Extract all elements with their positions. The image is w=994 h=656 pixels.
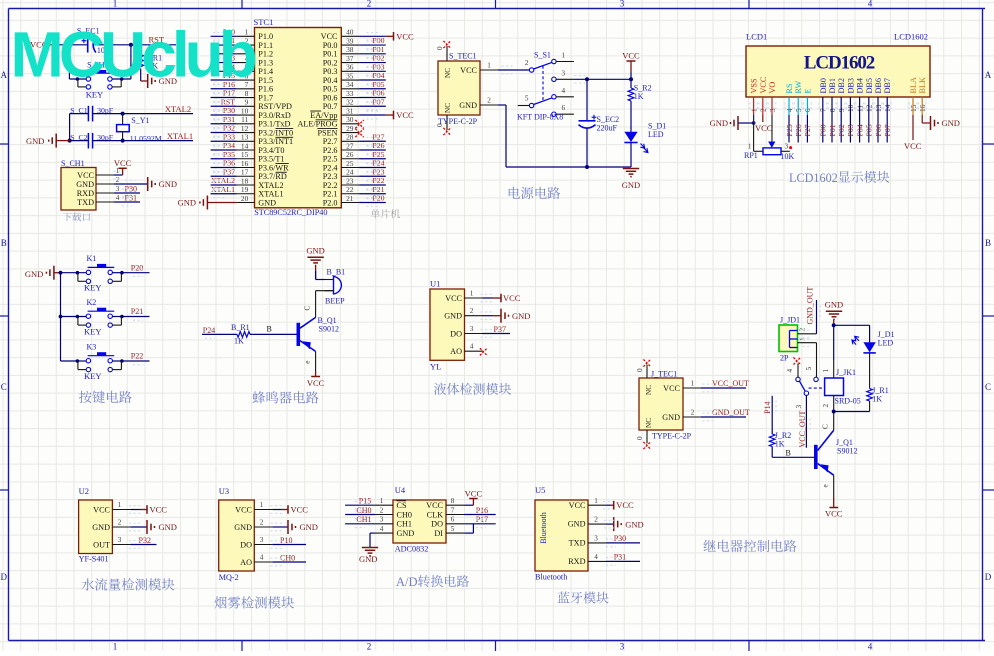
connector J_JD1 [779,325,798,363]
wire net XTAL2 [211,184,237,186]
pin 19 lead [237,185,255,194]
wire net RST [211,105,237,107]
svg-text:C: C [985,382,991,392]
svg-text:GND: GND [26,136,44,146]
wire key right up [130,45,132,79]
svg-text:6: 6 [451,516,455,524]
wire [701,416,746,418]
pin 13 lead [237,133,255,142]
node junction [120,77,124,81]
net label P23 [372,167,384,176]
pin 2 number [525,59,529,67]
wire [315,266,317,280]
svg-text:37: 37 [346,54,354,63]
svg-text:P3.5/T1: P3.5/T1 [258,155,284,164]
module U2 body [79,500,113,554]
net label P37 [481,325,506,338]
wire [114,201,140,203]
svg-text:7: 7 [451,506,455,514]
key K3 [76,343,124,382]
svg-text:B_R1: B_R1 [231,323,250,332]
wire net XTAL1 [211,193,237,195]
svg-text:1: 1 [748,142,752,150]
net label P22 [131,352,143,361]
power VCC port (pin 40) [386,31,414,41]
svg-text:LCD1602: LCD1602 [894,32,928,42]
pin 36 lead [341,63,359,72]
svg-text:VCC: VCC [93,505,110,514]
svg-text:VCC: VCC [445,294,462,303]
power VCC port (reset) [30,40,58,50]
svg-text:XTAL1: XTAL1 [167,131,193,141]
svg-text:1K: 1K [775,439,785,448]
svg-text:1: 1 [113,0,118,9]
wire VSS [753,97,755,123]
svg-text:1K: 1K [234,336,244,345]
pin 3 lead [465,325,483,334]
net label GND_OUT vertical [806,287,815,325]
pin 0 shield bottom [436,115,447,130]
pin 7 lead [446,506,464,514]
pin 5 stub [518,94,530,105]
svg-text:GND: GND [76,180,94,189]
svg-text:40: 40 [346,28,354,37]
svg-text:VCC: VCC [114,158,132,168]
pin 3 lead [112,536,130,545]
label 蜂鸣器电路 [252,391,318,403]
wire net P05 [359,88,386,90]
switch contact circle [814,377,818,381]
pin 2 lead [112,519,130,528]
wire [483,333,511,335]
svg-text:U5: U5 [535,485,545,495]
svg-text:P3.7/RD: P3.7/RD [258,172,287,181]
wire contact5 [805,343,817,378]
svg-text:VSS: VSS [750,78,759,93]
svg-text:A: A [985,70,992,80]
svg-text:25: 25 [346,159,354,168]
net label P15 [359,497,371,506]
svg-text:J_JK1: J_JK1 [836,368,856,377]
svg-text:AO: AO [240,558,252,567]
switch lever [800,381,806,391]
svg-text:P3.1/TxD: P3.1/TxD [258,120,290,129]
connector S_CH1 label [61,159,85,168]
pin 1 lead [375,497,393,505]
wire hook [112,79,121,87]
svg-text:3: 3 [116,185,120,193]
net label P34 [223,141,235,150]
svg-text:KFT DIP-8X8: KFT DIP-8X8 [517,113,563,122]
pin 22 lead [341,185,359,194]
wire relay pin1 [822,325,834,378]
svg-text:DO: DO [450,329,462,338]
svg-text:P2.4: P2.4 [323,163,338,172]
pin 3 [96,185,120,193]
LCD pin names [750,76,928,93]
svg-text:CH0: CH0 [397,510,412,519]
net label P17 [476,515,488,524]
module U3 part [219,573,239,582]
svg-text:GND: GND [942,118,960,128]
power VCC port (U3) [271,505,309,515]
no-connect [443,128,450,135]
no-connect [443,41,450,48]
wire net P25 [359,158,386,160]
ground (S_CH1) [148,177,177,191]
wire [606,523,614,525]
pin 6 lead [237,71,255,80]
resistor J_R2 [769,431,791,449]
wire net P34 [211,149,237,151]
capacitor S_EC1 label [77,27,100,36]
net label P14 [223,62,235,71]
wire VCC_OUT net [795,395,807,447]
svg-text:P24: P24 [372,159,384,168]
svg-text:P00: P00 [819,124,828,136]
svg-text:Bluetooth: Bluetooth [539,512,548,544]
pin 4 lead [588,553,606,561]
net label P25 [372,150,384,159]
net label P02 [372,54,384,63]
svg-text:4: 4 [470,343,474,351]
module U5 part [535,573,567,582]
svg-text:P0.3: P0.3 [323,67,338,76]
wire net P07 [359,105,386,107]
svg-text:B_B1: B_B1 [327,268,346,277]
svg-text:16: 16 [241,159,249,168]
pin 16 lead [237,159,255,168]
net label P14 vertical [763,401,772,413]
svg-text:2: 2 [691,409,695,417]
module U1 body [430,289,465,360]
svg-text:B: B [267,325,272,334]
svg-text:0: 0 [636,368,644,372]
svg-text:GND: GND [234,523,252,532]
module U2 part [79,555,109,564]
connector part number [438,117,478,126]
pin 1 lead [588,497,606,505]
net label P12 [223,45,235,54]
switch dashed link [809,387,825,389]
svg-text:VCC_OUT: VCC_OUT [712,379,749,388]
label A/D转换电路 [396,575,469,589]
resistor S_R1 [138,53,162,70]
svg-text:3: 3 [380,516,384,524]
svg-text:1: 1 [691,380,695,388]
svg-text:E: E [803,88,812,93]
svg-text:KEY: KEY [86,90,103,100]
svg-text:P25: P25 [372,150,384,159]
switch contact 4 [786,364,798,378]
pin 27 lead [341,141,359,150]
svg-text:17: 17 [241,168,249,177]
power VCC port (power circuit) [622,51,640,72]
net label P24 [203,326,215,335]
wire [316,290,334,292]
svg-text:P25: P25 [785,124,794,136]
wire [272,544,306,546]
module U5 body [535,500,588,571]
pin 2 lead [375,506,393,514]
svg-text:U3: U3 [219,486,229,496]
net label GND_OUT [712,408,750,417]
svg-text:P22: P22 [131,352,143,361]
svg-text:GND: GND [568,520,586,529]
net label VCC_OUT vertical [798,410,807,447]
pin 40 lead [341,28,359,37]
svg-text:1: 1 [487,62,491,70]
logo MCUclub [11,19,256,91]
svg-text:P10: P10 [280,536,292,545]
label 单片机 [371,209,400,218]
svg-text:DB2: DB2 [837,78,846,93]
net label P36 [223,159,235,168]
pin 29 lead [341,124,359,133]
pin 28 lead [341,133,359,142]
svg-text:P2.1: P2.1 [323,190,338,199]
wire [345,523,375,525]
node junction [67,43,71,47]
net label P06 [372,89,384,98]
svg-text:ADC0832: ADC0832 [395,545,429,554]
svg-text:39: 39 [346,36,354,45]
LCD designator [746,32,928,42]
switch S_S1 contacts [529,59,556,116]
svg-text:P06: P06 [874,124,883,136]
svg-text:MCUclub: MCUclub [11,19,256,91]
svg-text:VCC: VCC [755,123,773,133]
svg-text:P2.5: P2.5 [323,155,338,164]
svg-text:GND: GND [92,523,110,532]
svg-text:1: 1 [118,501,122,509]
svg-text:P21: P21 [131,307,143,316]
svg-text:P1.0: P1.0 [258,32,273,41]
svg-text:EA/Vpp: EA/Vpp [310,111,337,120]
pin 4 lead [237,54,255,63]
wire [606,560,640,562]
pin 5 lead [446,525,464,533]
svg-text:P22: P22 [372,176,384,185]
svg-text:P07: P07 [883,124,892,136]
svg-text:14: 14 [241,141,249,150]
pin 2 lead [480,97,498,106]
svg-text:GND: GND [625,519,643,529]
ground (U3) [271,520,318,534]
svg-text:TXD: TXD [77,198,94,207]
svg-text:GND: GND [258,198,276,207]
svg-text:P0.5: P0.5 [323,85,338,94]
wire [869,353,871,389]
svg-text:VCC: VCC [503,293,521,303]
wire net P24 [359,167,386,169]
net label P33 [223,132,235,141]
svg-text:P0.0: P0.0 [323,41,338,50]
svg-text:P02: P02 [372,54,384,63]
svg-text:P3.2/INT0: P3.2/INT0 [258,128,293,137]
svg-text:P35: P35 [223,150,235,159]
svg-text:34: 34 [346,80,354,89]
wire rail [69,114,71,141]
wire [574,78,631,80]
pin 1 stub [556,52,574,62]
svg-text:NC: NC [644,385,653,395]
key S_K1 [86,60,119,99]
LCD1602 body [746,46,930,97]
label 烟雾检测模块 [214,596,294,608]
wire net P37 [211,175,237,177]
label 蓝牙模块 [558,592,609,604]
wire net P02 [359,62,386,64]
pin 1 [96,167,120,175]
wire XTAL2 [93,113,193,115]
pin 17 lead [237,168,255,177]
svg-text:P02: P02 [837,124,846,136]
wire [630,101,632,132]
svg-text:P27: P27 [372,132,384,141]
net label P21 [372,185,384,194]
svg-text:P3.0/RxD: P3.0/RxD [258,111,291,120]
svg-text:P34: P34 [223,141,235,150]
wire net P33 [211,140,237,142]
wire net P31 [211,123,237,125]
wire [630,72,632,88]
pin 7 lead [237,80,255,89]
svg-text:12: 12 [241,124,249,133]
pin 12 lead [237,124,255,133]
svg-text:P3.6/WR: P3.6/WR [258,163,289,172]
svg-text:P1.3: P1.3 [258,58,273,67]
svg-text:LCD1: LCD1 [746,32,767,42]
power VCC port (U2) [129,505,167,515]
svg-text:GND: GND [397,529,415,538]
svg-text:4: 4 [594,553,598,561]
pin 10 lead [237,106,255,115]
pin 38 lead [341,45,359,54]
svg-text:P23: P23 [372,167,384,176]
net label P17 [223,89,235,98]
pin 3 lead [588,535,606,543]
svg-text:LCD1602: LCD1602 [804,53,875,74]
svg-text:3: 3 [470,325,474,333]
svg-text:11.0592M: 11.0592M [130,134,162,143]
svg-text:RXD: RXD [568,557,585,566]
svg-text:P36: P36 [223,159,235,168]
pin 31 lead [341,106,359,115]
svg-text:10K: 10K [781,152,795,161]
power VCC (LCD pin2) [755,123,773,133]
transistor J_Q1 [814,430,857,475]
svg-text:GND: GND [825,299,843,309]
svg-text:CH0: CH0 [280,553,295,562]
svg-text:26: 26 [346,150,354,159]
svg-text:38: 38 [346,45,354,54]
svg-text:P30: P30 [223,106,235,115]
pin 2 lead [237,36,255,45]
svg-text:5: 5 [525,94,529,102]
svg-text:GND: GND [159,522,177,532]
svg-text:2: 2 [118,519,122,527]
ground (U5) [604,517,644,531]
svg-text:GND: GND [512,311,530,321]
svg-text:2: 2 [380,506,384,514]
svg-text:24: 24 [346,168,354,177]
pin 3 stub [556,69,574,79]
transistor B_Q1 [297,316,339,351]
ground (reset) [148,74,177,88]
net label P31 [125,193,137,202]
label 继电器控制电路 [703,540,796,552]
svg-text:S_TEC1: S_TEC1 [449,52,477,61]
wire net P23 [359,175,386,177]
svg-text:VCC: VCC [616,500,634,510]
wire [701,387,746,389]
ground (power circuit) [622,169,640,191]
net label P16 [476,506,488,515]
svg-text:1: 1 [594,497,598,505]
pin 5 lead [237,63,255,72]
svg-text:KEY: KEY [84,283,101,293]
ground (buzzer) [306,246,324,266]
wire [464,514,496,516]
wire [122,272,150,274]
switch contact circle [796,377,800,381]
svg-text:VCC: VCC [904,141,922,151]
svg-text:CH1: CH1 [356,515,371,524]
svg-text:TYPE-C-2P: TYPE-C-2P [438,117,478,126]
node junction [129,43,133,47]
pin 0 shield bottom [636,430,647,444]
module U3 body [219,500,255,571]
svg-text:P1.1: P1.1 [258,41,273,50]
wire [58,44,87,46]
wire [771,396,773,434]
module U3 designator [219,486,229,496]
svg-text:4: 4 [116,194,120,202]
wire net P12 [211,53,237,55]
ground (crystal) [26,134,70,148]
svg-text:B: B [985,238,991,248]
svg-text:4: 4 [380,525,384,533]
svg-text:A/D: A/D [396,575,418,589]
svg-text:LCD1602: LCD1602 [789,171,838,185]
svg-text:DO: DO [431,520,443,529]
pin 1 lead [237,28,255,37]
svg-text:3: 3 [785,142,789,150]
svg-text:2: 2 [525,59,529,67]
wire GND_OUT net [816,300,818,334]
svg-text:GND: GND [306,246,324,256]
svg-text:KEY: KEY [84,327,101,337]
pin 30 lead [341,115,359,124]
wire net P13 [211,62,237,64]
pin 4 stub [556,87,574,97]
svg-text:OUT: OUT [93,540,110,549]
net label P10 [223,28,235,37]
svg-text:DB0: DB0 [819,78,828,93]
svg-text:35: 35 [346,71,354,80]
svg-text:C: C [1,382,7,392]
svg-text:P01: P01 [372,45,384,54]
wire [202,333,237,335]
svg-text:9: 9 [245,98,249,107]
svg-text:30: 30 [346,115,354,124]
node junction [76,77,80,81]
svg-text:31: 31 [346,106,354,115]
svg-text:1K: 1K [872,394,882,403]
svg-text:P04: P04 [855,124,864,136]
svg-text:5: 5 [805,367,813,371]
